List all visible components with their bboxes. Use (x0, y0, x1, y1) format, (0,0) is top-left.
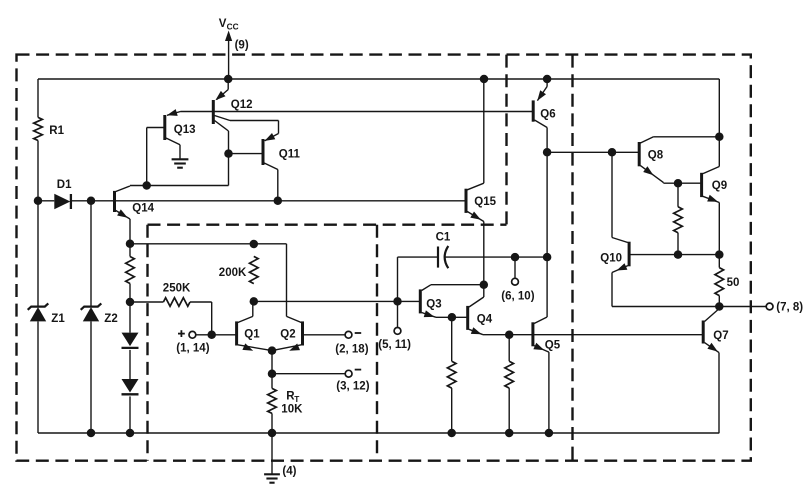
terminal - (3, 12) (336, 370, 369, 393)
svg-text:10K: 10K (281, 404, 303, 416)
wire Q7 emitter drop (718, 353, 720, 433)
svg-text:Q9: Q9 (712, 180, 727, 192)
svg-text:Q2: Q2 (280, 329, 295, 341)
resistor 250K (163, 282, 191, 306)
dashed section divider vertical x377 (376, 225, 378, 461)
terminal (7, 8) (719, 301, 803, 313)
transistor Q14 (NPN) (115, 186, 155, 220)
transistor Q11 (PNP) (263, 133, 301, 170)
transistor Q7 (NPN) (703, 307, 728, 353)
terminal + (1, 14) (176, 330, 209, 354)
resistor 50 (715, 268, 739, 296)
terminal (6, 10) (501, 257, 534, 302)
svg-text:200K: 200K (219, 267, 247, 279)
svg-text:(7, 8): (7, 8) (776, 301, 803, 313)
ground (Q13 collector) (172, 145, 189, 168)
svg-text:CC: CC (227, 22, 239, 32)
diode D3 (122, 379, 139, 394)
svg-text:(9): (9) (235, 39, 249, 51)
wire Q3 emitter / Q4 base y317.3 (436, 313, 468, 322)
svg-text:Q13: Q13 (174, 124, 196, 136)
wire diode chain x130 (129, 284, 131, 434)
transistor Q5 (NPN) (533, 317, 561, 352)
dashed section divider (bias box top) (148, 223, 507, 225)
svg-text:Q11: Q11 (279, 149, 301, 161)
transistor Q9 (NPN) (702, 167, 728, 203)
svg-text:Q12: Q12 (231, 99, 253, 111)
transistor Q1 (NPN) (237, 316, 272, 350)
wire Q14 emitter to 200K top y243.8 (126, 219, 287, 316)
wire 250K node (126, 244, 212, 335)
wire Q14 collector / Q13 base node y185.5 (130, 128, 229, 190)
zener Z2 (81, 303, 118, 324)
wire Q3/Q4 collectors to Q15 emitter (431, 79, 488, 289)
svg-text:Z2: Z2 (104, 313, 117, 325)
wire Q4 emitter / Q5 base / Q7 base y334.7 (483, 330, 703, 339)
resistor R1 (34, 117, 65, 140)
resistor 200K (219, 256, 258, 283)
wire Z2 branch x91 (90, 201, 92, 433)
resistor bias chain (126, 257, 135, 284)
resistor Q8 emitter (674, 207, 683, 233)
wire 50 ohm leads (718, 255, 720, 307)
wire Q4 emitter resistor drop (508, 335, 510, 433)
transistor Q2 (NPN mirrored) (272, 316, 345, 350)
wire Q12 collector1 to Q11 emitter (230, 121, 279, 134)
resistor RT 10K (268, 388, 303, 415)
wire C1 riser x397.5 (398, 257, 439, 301)
svg-text:D1: D1 (57, 179, 72, 191)
transistor Q15 (NPN) (466, 183, 497, 221)
svg-text:250K: 250K (163, 282, 191, 294)
transistor Q6 (PNP) (533, 79, 555, 128)
transistor Q8 (NPN) (639, 137, 664, 183)
svg-text:Q6: Q6 (540, 108, 555, 120)
wire Q8 emitter / Q9 base y183.2 (664, 179, 702, 188)
transistor Q13 (PNP) (165, 109, 196, 145)
ground (4) (264, 433, 297, 483)
transistor Q12 (PNP dual collector) (213, 79, 252, 131)
resistor Q3 emitter (447, 361, 456, 388)
svg-text:Q5: Q5 (545, 339, 561, 351)
wire Q10 collector vertical x612 (611, 152, 613, 237)
wire VCC right drop x719.3 (715, 79, 724, 167)
wire Q1/Q2 common emitter tail (268, 346, 346, 433)
dashed section divider vertical x147 (146, 225, 148, 461)
svg-text:Q15: Q15 (474, 196, 496, 208)
svg-text:(3, 12): (3, 12) (336, 380, 369, 392)
wire Q3 emitter resistor drop (451, 317, 453, 433)
capacitor C1 (436, 231, 451, 268)
transistor Q3 (NPN) (420, 285, 441, 318)
svg-text:Q3: Q3 (426, 298, 441, 310)
svg-text:Z1: Z1 (51, 313, 65, 325)
svg-text:50: 50 (727, 277, 740, 289)
svg-text:V: V (219, 18, 227, 30)
svg-text:C1: C1 (436, 231, 451, 243)
svg-text:(6, 10): (6, 10) (501, 290, 534, 302)
diode D2 (122, 333, 139, 348)
wire D1 node rail y200.8 (D1-Q14b-Q11c-Q15b) (34, 197, 466, 206)
wire base rail y111.5 (Q13e-Q12b-Q6b) (181, 111, 534, 113)
dashed section divider vertical x572 (571, 55, 573, 461)
svg-text:(1, 14): (1, 14) (176, 342, 209, 354)
svg-text:Q14: Q14 (132, 202, 154, 214)
wire ground rail y433 (38, 429, 719, 438)
wire Q5/Q6 collector vertical x547.1 (543, 128, 552, 318)
wire Q8 collector y136.8 (654, 136, 720, 138)
svg-text:Q4: Q4 (477, 313, 493, 325)
resistor Q4 emitter (505, 361, 514, 388)
dashed IC package boundary (17, 55, 751, 461)
wire Q5 emitter drop (548, 352, 550, 433)
wire Q1 collector / comparator node y301.4 (250, 297, 421, 316)
wire Q9 emitter drop x719.3 (718, 203, 720, 255)
diode D1 (54, 179, 72, 209)
svg-text:(5, 11): (5, 11) (378, 339, 411, 351)
wire Q11 collector drop x277.8 (277, 170, 279, 201)
VCC terminal (9) (219, 18, 249, 79)
terminal - (2, 18) (335, 331, 368, 355)
svg-text:R1: R1 (49, 125, 64, 137)
wire C1 right to Q5 collector y257.1 (444, 253, 551, 262)
wire input + node y334.8 (196, 331, 237, 340)
dashed section divider vertical x506 (505, 55, 507, 225)
wire Q10 base rail y254.6 (629, 250, 723, 259)
svg-text:(4): (4) (282, 465, 296, 477)
svg-text:T: T (294, 394, 299, 404)
transistor Q10 (NPN mirrored) (600, 238, 629, 273)
svg-text:(2, 18): (2, 18) (335, 343, 368, 355)
wire Q11 base to Q12 collector2 (224, 131, 263, 186)
wire VCC rail y79 (38, 75, 719, 84)
terminal (5, 11) (378, 301, 411, 351)
zener Z1 (28, 303, 66, 324)
wire resistor x678 leads (677, 183, 679, 254)
wire Q10 emitter run y306.5 (612, 273, 724, 311)
svg-text:Q8: Q8 (648, 149, 664, 161)
svg-text:Q10: Q10 (600, 252, 622, 264)
svg-text:Q1: Q1 (244, 329, 260, 341)
transistor Q4 (NPN) (468, 285, 493, 335)
wire left branch vertical x38 (37, 79, 39, 433)
svg-text:Q7: Q7 (713, 330, 728, 342)
wire Q6 collector rail y152.3 (547, 148, 639, 157)
